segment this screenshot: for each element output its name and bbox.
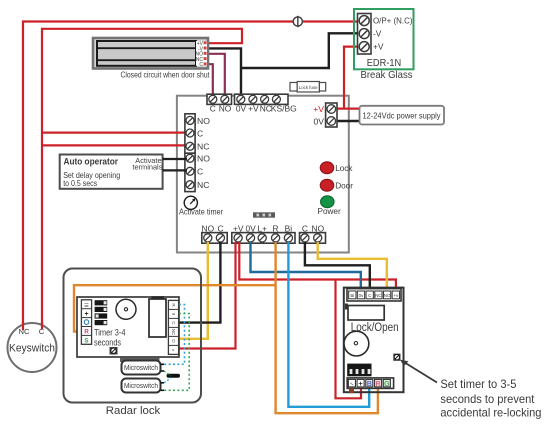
svg-text:C: C [199, 62, 203, 68]
power supply box [360, 106, 445, 125]
radar DIP switch block [95, 300, 108, 325]
svg-text:Activate timer: Activate timer [179, 207, 223, 216]
svg-text:NC: NC [197, 142, 209, 152]
top terminal strip C NO [207, 94, 232, 113]
microswitch actuator bar [167, 374, 181, 378]
wire maroon maglock C to controller C [206, 64, 213, 99]
svg-text:R: R [84, 329, 89, 336]
svg-text:G: G [384, 379, 390, 388]
keyswitch circle [8, 323, 57, 372]
svg-text:Closed circuit when door shut: Closed circuit when door shut [121, 70, 211, 80]
wire cyan controller Bi to Lock/Open B [288, 242, 369, 407]
wire red branch to controller NC [42, 144, 187, 146]
lock/open sounder [344, 331, 369, 356]
svg-text:Microswitch: Microswitch [124, 363, 158, 372]
maglock body [93, 38, 208, 69]
svg-text:NO: NO [384, 293, 391, 298]
right +V 0V terminal strip [313, 103, 337, 127]
svg-text:Timer 3-4: Timer 3-4 [94, 327, 126, 337]
svg-text:NO: NO [219, 104, 232, 114]
LED Door (red) [320, 179, 353, 191]
note arrow to timer screw [403, 362, 437, 383]
svg-text:C: C [210, 104, 216, 114]
svg-text:9: 9 [171, 313, 176, 316]
svg-text:seconds to prevent: seconds to prevent [440, 393, 535, 406]
microswitch 2 [122, 379, 165, 393]
bottom labels row [202, 224, 325, 234]
svg-text:EDR-1N: EDR-1N [367, 58, 402, 69]
svg-text:Door: Door [335, 182, 353, 191]
svg-text:+V: +V [248, 104, 259, 114]
bottom strip C NO [300, 233, 326, 244]
svg-text:Keyswitch: Keyswitch [9, 342, 55, 354]
terminal -V [359, 29, 369, 39]
controller main box [177, 96, 349, 253]
microswitch 1 [122, 361, 165, 375]
wire black controller C(left) to radar terminal [179, 242, 220, 323]
dotted cyan link strip to microswitch1 [164, 305, 185, 365]
svg-text:C: C [39, 327, 45, 336]
svg-text:Power: Power [318, 207, 341, 216]
LED Lock (red) [320, 162, 353, 174]
wire red controller +V to Lock/Open +v [239, 242, 396, 293]
wire dark blue controller 0V to Lock/Open 0v [251, 242, 361, 293]
wire yellow controller NO(right) to Lock/Open NO [318, 242, 387, 293]
svg-text:B: B [367, 379, 372, 388]
activate timer dial [184, 196, 197, 209]
auto operator box [60, 155, 163, 189]
lock fuse holder [290, 82, 326, 93]
lock/open top terminal strip [347, 289, 401, 301]
maglock terminal labels +V -V NO NC C [196, 41, 207, 68]
svg-text:+V: +V [313, 104, 324, 114]
svg-text:12-24Vdc power supply: 12-24Vdc power supply [363, 110, 442, 120]
wire red keyswitch-NC to EDR O/P+ (outer loop) [23, 22, 358, 331]
svg-text:+: + [358, 379, 362, 388]
radar sounder [116, 299, 136, 319]
svg-text:R: R [375, 379, 381, 388]
svg-text:KS/BG: KS/BG [271, 104, 297, 114]
svg-text:Lock fuse: Lock fuse [299, 85, 318, 90]
svg-text:+V: +V [373, 42, 384, 52]
svg-text:Auto operator: Auto operator [64, 156, 119, 167]
wire red EDR +V down to PSU feed [344, 47, 358, 109]
svg-text:C: C [197, 128, 203, 138]
svg-text:Radar lock: Radar lock [106, 405, 161, 417]
bottom strip NO C [202, 233, 227, 244]
wire black maglock -V to controller 0V with branch to EDR -V [206, 48, 241, 99]
left terminal strip group2 NO C NC [185, 153, 210, 191]
wire black controller C(right) to Lock/Open C [305, 242, 370, 293]
svg-text:NC: NC [197, 180, 209, 190]
svg-text:S: S [84, 337, 88, 344]
radar lock enclosure [64, 269, 202, 403]
svg-text:accidental re-locking: accidental re-locking [440, 407, 541, 420]
wire orange branch into radar timer R [74, 285, 276, 331]
svg-text:C: C [368, 293, 371, 298]
wire maroon maglock NO to controller NO [206, 54, 225, 99]
svg-text:Set timer to 3-5: Set timer to 3-5 [440, 378, 516, 391]
svg-text:Bi: Bi [350, 293, 354, 298]
svg-text:seconds: seconds [94, 337, 121, 347]
svg-text:+v: +v [393, 293, 399, 298]
wire black 0V terminal to power supply [331, 120, 360, 122]
fuse F1 on O/P+ wire [293, 16, 302, 27]
svg-text:to 0.5 secs: to 0.5 secs [63, 179, 97, 188]
svg-text:☰: ☰ [84, 302, 89, 309]
jumper header icon [253, 212, 275, 217]
svg-text:Break Glass: Break Glass [361, 70, 413, 81]
radar bolt bar [120, 358, 160, 363]
wire red keyswitch-C to maglock +V (inner loop) [42, 29, 242, 329]
top terminal strip 0V +V NC KS/BG [235, 94, 297, 113]
lock/open relay rect [348, 306, 384, 321]
svg-text:0V: 0V [236, 104, 247, 114]
svg-text:0v: 0v [359, 293, 364, 298]
dotted teal links to actuator [164, 371, 171, 376]
dotted green link strip to microswitch2 [164, 314, 189, 391]
break glass unit U-EDR box [354, 9, 414, 69]
radar timer left terminal strip [81, 300, 91, 345]
radar right terminal strip [168, 300, 178, 354]
wire yellow controller NO(left) to radar terminal [179, 242, 208, 339]
lock/open timer screw [393, 354, 400, 361]
svg-text:∿: ∿ [350, 382, 354, 388]
radar timer PCB [77, 297, 179, 357]
svg-text:O/P+ (N.C): O/P+ (N.C) [373, 16, 413, 26]
svg-text:Microswitch: Microswitch [124, 381, 158, 390]
svg-text:terminals: terminals [132, 163, 162, 172]
svg-text:Lock: Lock [335, 164, 353, 173]
svg-text:NO: NO [197, 154, 210, 164]
svg-text:NC: NC [375, 293, 381, 298]
svg-text:+: + [84, 311, 88, 318]
terminal +V [359, 42, 369, 52]
svg-text:0V: 0V [313, 116, 324, 126]
svg-text:NC: NC [19, 327, 30, 336]
wire red stub C [41, 322, 43, 329]
left terminal strip group1 NO C NC [185, 114, 210, 153]
wire red stub NC [22, 322, 24, 330]
brown stub under first cell [349, 388, 354, 393]
terminal O/P+ [359, 16, 369, 26]
wire orange controller R to Lock/Open R [276, 242, 378, 413]
wire black activate terminal 1 [163, 158, 187, 160]
wire red controller +V to radar timer + [179, 242, 236, 349]
svg-text:-V: -V [373, 29, 382, 39]
EDR terminal strip [358, 14, 372, 55]
wire red +V terminal to power supply [331, 107, 360, 109]
note text set timer [440, 378, 541, 420]
radar adjust screw [110, 347, 118, 355]
wire red branch to controller C [42, 132, 187, 134]
wire black activate terminal 2 [163, 169, 187, 171]
svg-text:NC: NC [171, 329, 176, 336]
LED Power (green) [318, 196, 341, 216]
lock/open bottom terminal strip [347, 378, 393, 389]
lock/open pin connector [347, 364, 371, 377]
wire red branch down to Lock/Open + [336, 280, 362, 399]
svg-text:C: C [197, 167, 203, 177]
lock/open unit box [344, 288, 404, 393]
svg-text:NO: NO [197, 116, 210, 126]
radar relay block [152, 296, 165, 299]
EDR pin labels [373, 16, 413, 52]
bottom strip +V 0V L+ R Bi [232, 233, 295, 244]
